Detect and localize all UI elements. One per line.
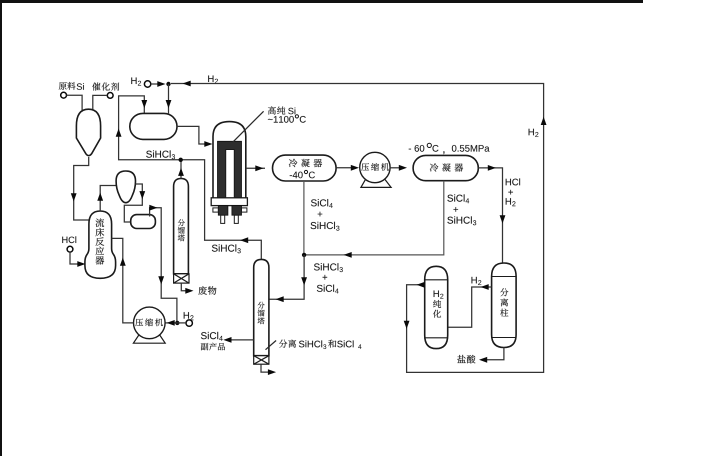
electrode block left bbox=[218, 206, 228, 216]
wire H2 to junction bbox=[177, 322, 186, 324]
arrow condenser2 out bbox=[488, 165, 496, 171]
arrow waste out bbox=[185, 288, 193, 294]
node H2 junction bbox=[166, 82, 170, 86]
node compressor junction bbox=[175, 321, 179, 325]
compressor C2 stand bbox=[361, 176, 391, 187]
wire settler to compressor bbox=[150, 208, 177, 323]
wire T1 bottoms to waste bbox=[181, 283, 186, 291]
wire H2 recycle loop bbox=[171, 84, 544, 373]
label H2 at compressor bbox=[184, 312, 189, 319]
port H2 makeup bbox=[186, 320, 192, 326]
node bottoms junction bbox=[302, 253, 306, 257]
compressor C1 bbox=[134, 307, 166, 339]
electrode block right bbox=[232, 206, 242, 216]
arrow into compressor2 bbox=[351, 165, 359, 171]
port catalyst bbox=[107, 93, 113, 99]
label byproduct bbox=[201, 343, 225, 351]
wire cyclone to settler bbox=[124, 184, 142, 222]
vessel cyclone separator bbox=[116, 171, 135, 203]
vessel CVD bell jar bbox=[213, 122, 246, 198]
label tower2 bbox=[258, 302, 265, 324]
H2 purification seams bbox=[425, 280, 448, 338]
wire condenser1 to compressor2 bbox=[336, 167, 353, 169]
wire junction down to mixer bbox=[168, 84, 170, 113]
electrode pin left bbox=[221, 215, 225, 223]
scan border top bbox=[0, 0, 643, 3]
vessel condenser E1 bbox=[273, 155, 337, 181]
label H2 purification bbox=[433, 300, 441, 318]
label plus1 bbox=[508, 190, 513, 195]
vessel H2 mixer drum bbox=[130, 113, 177, 139]
label 1100C bbox=[268, 116, 294, 123]
arrow SiHCl3 left bbox=[240, 237, 248, 243]
label separate bbox=[279, 340, 296, 348]
label HCl bbox=[506, 178, 520, 185]
arrow SiHCl3 into mixer bbox=[141, 100, 147, 108]
wire compressor2 to condenser2 bbox=[390, 167, 401, 169]
label plus c2 bbox=[453, 207, 458, 212]
arrow HCl inlet bbox=[77, 261, 85, 267]
compressor C2 bbox=[360, 152, 390, 182]
vessel settler drum bbox=[131, 215, 156, 229]
vessel condenser E2 bbox=[413, 155, 478, 180]
vessel fractionating tower T1 bbox=[174, 179, 189, 274]
vessel separation column bbox=[492, 263, 516, 348]
arrow down to tower2 bbox=[301, 277, 307, 285]
arrow settler line down bbox=[158, 276, 164, 284]
wire reactor top to cyclone bbox=[100, 186, 116, 212]
node SiHCl3 junction bbox=[179, 158, 183, 162]
arrow SiHCl3 riser up bbox=[116, 129, 122, 137]
wire condenser1 bottoms bbox=[303, 181, 305, 255]
arrow H2 out left bbox=[417, 282, 425, 288]
label SiCl4 byprod bbox=[201, 332, 218, 339]
label SiHCl3 under bell bbox=[212, 244, 236, 251]
arrow into tower2 bbox=[276, 296, 284, 302]
wire condenser2 to separator bbox=[478, 168, 502, 263]
arrow H2 into mixer bbox=[166, 100, 172, 108]
arrow into compressor1 bbox=[167, 320, 175, 326]
label H2 header bbox=[208, 75, 213, 82]
label sep SiCl4 bbox=[337, 340, 353, 347]
arrow hopper feed down bbox=[71, 193, 77, 201]
label condenser2 bbox=[430, 163, 463, 171]
wire mixer to bell bbox=[177, 126, 206, 144]
arrow T1 overhead up bbox=[178, 168, 184, 176]
scan border left bbox=[0, 0, 2, 456]
arrow H2 to junction bbox=[183, 81, 191, 87]
label SiCl4 mix bbox=[317, 285, 334, 292]
label SiHCl3 mix bbox=[314, 263, 338, 270]
wire condenser2 bottoms bbox=[304, 181, 444, 255]
label H2 feed bbox=[131, 77, 136, 84]
port H2 feed bbox=[144, 81, 150, 87]
arrow H2 loop down bbox=[404, 321, 410, 329]
arrow reactor overhead up bbox=[97, 193, 103, 201]
label H2 sep bbox=[471, 277, 476, 284]
label and bbox=[328, 340, 336, 348]
arrow into condenser2 bbox=[399, 165, 407, 171]
arrow tower2 bottoms out bbox=[268, 369, 276, 375]
arrow into bell bbox=[204, 141, 212, 147]
wire sep col bottoms bbox=[485, 348, 504, 360]
wire bell to condenser1 bbox=[246, 167, 265, 169]
arrow bell out bbox=[255, 165, 263, 171]
arrow recycle up bbox=[120, 258, 126, 266]
wire compressor1 to reactor bbox=[112, 238, 134, 323]
port raw Si bbox=[61, 92, 67, 98]
arrow H2 from sep col bbox=[481, 284, 489, 290]
label raw-material Si suffix bbox=[77, 83, 84, 90]
vessel H2 purification column bbox=[425, 266, 448, 348]
label plus c1 bbox=[318, 212, 323, 217]
label waste bbox=[198, 286, 216, 295]
wire sep col H2 out bbox=[448, 287, 492, 327]
vessel fluidized-bed reactor bbox=[85, 211, 116, 278]
label compressor1 bbox=[135, 318, 163, 326]
label SiCl4 c1 bbox=[311, 199, 328, 206]
separation column seams bbox=[492, 277, 516, 338]
compressor C1 stand bbox=[133, 331, 165, 343]
label hydrochloric acid bbox=[457, 355, 475, 363]
wire hopper to reactor bbox=[74, 157, 89, 220]
callout pointer high-purity Si bbox=[233, 111, 264, 142]
arrow H2 feed right bbox=[157, 81, 165, 87]
port HCl bbox=[67, 246, 73, 252]
silicon rod (dark U) bbox=[218, 141, 242, 197]
label plus mix bbox=[323, 275, 328, 280]
arrow H2 loop up bbox=[541, 117, 547, 125]
wire HCl to reactor bbox=[70, 252, 78, 264]
electrode lug right bbox=[242, 208, 247, 212]
label sep SiCl4 sub bbox=[358, 344, 361, 348]
label condenser1 bbox=[289, 159, 322, 167]
label SiHCl3 header bbox=[146, 150, 170, 157]
label -40C bbox=[290, 172, 303, 179]
label high purity Si bbox=[268, 106, 285, 114]
label tower1 bbox=[178, 219, 185, 241]
label separation column bbox=[500, 288, 508, 316]
wire SiHCl3 recycle bbox=[119, 96, 262, 260]
arrow cyclone out down bbox=[139, 191, 145, 199]
callout pointer separation bbox=[266, 341, 277, 350]
label SiHCl3 c2 bbox=[447, 216, 471, 223]
electrode pin right bbox=[234, 215, 238, 223]
label high purity Si suffix bbox=[288, 108, 295, 115]
label HCl inlet bbox=[62, 236, 76, 243]
bell base flange bbox=[211, 198, 247, 206]
label raw-material Si bbox=[59, 82, 76, 90]
arrow HCl H2 down bbox=[500, 215, 506, 223]
arrow bottoms left bbox=[344, 252, 352, 258]
label SiHCl3 c1 bbox=[311, 222, 335, 229]
label SiCl4 c2 bbox=[447, 194, 464, 201]
label H2r bbox=[506, 198, 511, 205]
label -60C 0.55MPa bbox=[409, 145, 425, 152]
label catalyst bbox=[92, 82, 119, 90]
vessel hopper (feed) bbox=[76, 109, 100, 155]
label sep SiHCl3 bbox=[299, 340, 322, 347]
wire catalyst to hopper bbox=[93, 95, 108, 111]
electrode lug left bbox=[213, 208, 218, 212]
wire raw Si to hopper bbox=[67, 95, 83, 111]
reboiler X-box T1 bbox=[174, 274, 189, 283]
label compressor2 bbox=[361, 163, 389, 171]
arrow SiCl4 byproduct bbox=[223, 337, 231, 343]
wire tower2 bottoms bbox=[261, 364, 270, 372]
vessel fractionating tower T2 bbox=[254, 259, 269, 355]
label H2 purif bbox=[434, 290, 439, 297]
label fluidized bed reactor bbox=[95, 218, 104, 264]
wire T1 overhead bbox=[180, 160, 182, 179]
wire junction to compressor bbox=[166, 322, 178, 324]
wire H2 feed bbox=[151, 83, 160, 85]
arrow settler out right bbox=[149, 205, 157, 211]
reboiler X-box T2 bbox=[254, 356, 269, 365]
label H2 riser bbox=[529, 129, 534, 136]
arrow HCl acid out bbox=[479, 357, 487, 363]
wire tower2 sidedraw bbox=[229, 339, 254, 341]
wire junction to tower2 bbox=[269, 255, 304, 299]
